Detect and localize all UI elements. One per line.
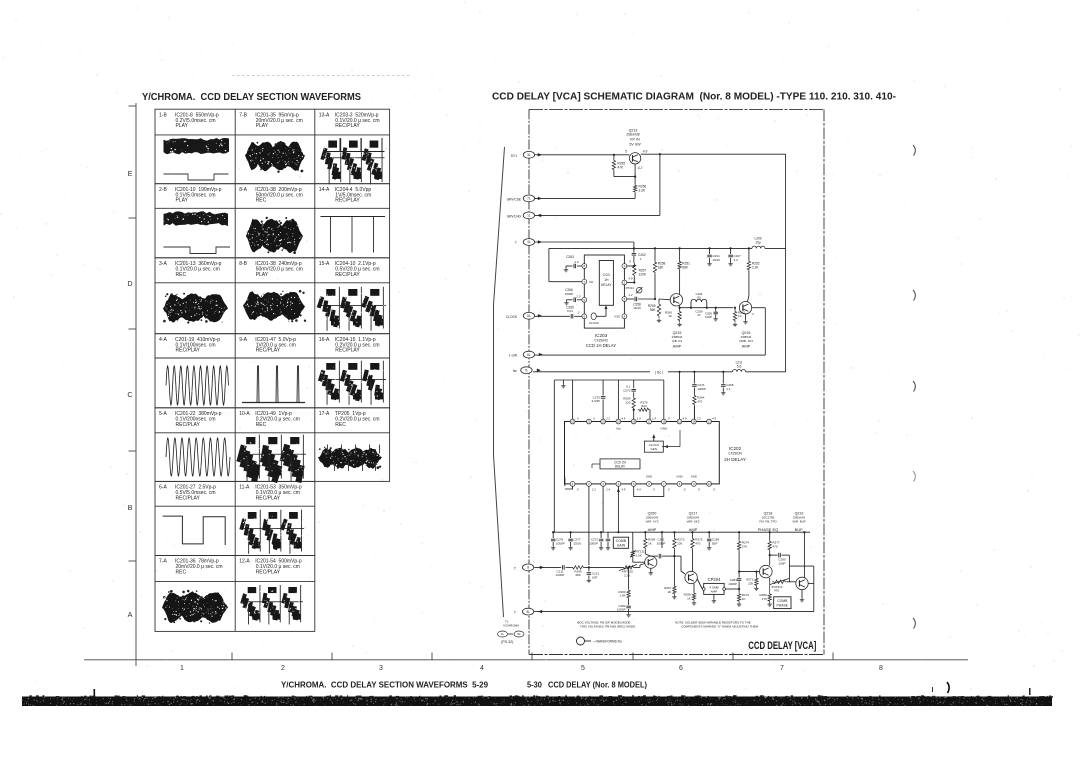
wire pin5 pin7 link bbox=[634, 486, 664, 496]
svg-text:COMB: COMB bbox=[777, 599, 788, 603]
svg-text:1K: 1K bbox=[687, 596, 691, 600]
svg-text:470: 470 bbox=[762, 597, 767, 601]
wire Q217 base bbox=[674, 555, 681, 557]
ground R260 bbox=[679, 323, 681, 325]
svg-text:1000P: 1000P bbox=[565, 292, 574, 296]
wire CP204 out bbox=[726, 588, 741, 590]
svg-text:DELAY: DELAY bbox=[615, 464, 626, 468]
svg-text:C270: C270 bbox=[623, 388, 631, 392]
svg-text:1-B: 1-B bbox=[159, 112, 167, 118]
capacitor C274 bbox=[692, 372, 706, 394]
wire 1GW bbox=[535, 354, 765, 356]
svg-text:33/16: 33/16 bbox=[573, 541, 581, 545]
svg-text:RT214: RT214 bbox=[626, 286, 635, 290]
svg-text:COMPONENTS MARKED ″X″ WHEN ADJ: COMPONENTS MARKED ″X″ WHEN ADJUSTING THE… bbox=[681, 625, 759, 629]
capacitor C272 bbox=[589, 532, 603, 546]
inductor L211 bbox=[733, 361, 746, 372]
wire pin4 down bbox=[617, 486, 620, 532]
resistor R256 bbox=[633, 184, 646, 193]
IC202 pin 17 bbox=[647, 419, 652, 424]
svg-text:3-A: 3-A bbox=[159, 261, 167, 267]
capacitor C273 bbox=[606, 532, 611, 546]
svg-text:2SB1438: 2SB1438 bbox=[626, 133, 639, 137]
svg-text:2.1: 2.1 bbox=[591, 488, 596, 492]
wire Q218 base bbox=[739, 571, 759, 573]
svg-text:CCD 1H DELAY: CCD 1H DELAY bbox=[586, 343, 616, 348]
resistor R271 bbox=[746, 571, 758, 587]
ground C256 bbox=[715, 317, 717, 319]
svg-text:PLAY: PLAY bbox=[176, 198, 189, 204]
svg-text:PHASE: PHASE bbox=[777, 604, 789, 608]
svg-text:GAIN: GAIN bbox=[617, 543, 626, 547]
svg-text:1.2: 1.2 bbox=[628, 293, 633, 297]
svg-text:120K: 120K bbox=[639, 273, 647, 277]
transistor Q213 bbox=[625, 129, 647, 171]
svg-text:GEN: GEN bbox=[651, 447, 658, 451]
svg-text:20: 20 bbox=[601, 420, 605, 424]
svg-text:5V SW: 5V SW bbox=[629, 143, 641, 147]
ground R280 bbox=[769, 602, 771, 604]
svg-text:C: C bbox=[127, 390, 132, 399]
wire drop pin19 bbox=[617, 380, 619, 419]
ground R262 bbox=[734, 323, 736, 325]
svg-text:GRV/CSE: GRV/CSE bbox=[507, 197, 521, 201]
svg-text:2H DELAY: 2H DELAY bbox=[724, 457, 746, 462]
svg-text:47: 47 bbox=[697, 313, 701, 317]
svg-text:1.1: 1.1 bbox=[726, 387, 731, 391]
svg-text:4.9: 4.9 bbox=[628, 277, 633, 281]
svg-text:TWO VOLTAGES: PB AND (REC) MOD: TWO VOLTAGES: PB AND (REC) MODE bbox=[580, 625, 635, 629]
svg-text:2: 2 bbox=[751, 312, 754, 316]
svg-text:REC/PLAY: REC/PLAY bbox=[335, 123, 360, 129]
wire Q219 collector bbox=[803, 532, 805, 578]
ground R272 bbox=[738, 602, 740, 604]
resistor R245 bbox=[571, 566, 622, 577]
svg-text:GND: GND bbox=[646, 475, 652, 479]
ground Q219 emitter bbox=[800, 590, 804, 602]
wire drop pin14 bbox=[693, 406, 695, 419]
resistor R263 bbox=[618, 567, 630, 599]
ground C272 bbox=[600, 546, 602, 548]
svg-text:1000P: 1000P bbox=[657, 541, 666, 545]
IC202 pin 14 bbox=[691, 419, 696, 424]
connector fsc bbox=[513, 367, 541, 374]
svg-text:3.3K: 3.3K bbox=[639, 189, 646, 193]
IC202 pin 4 bbox=[616, 482, 621, 487]
svg-text:RY IN: RY IN bbox=[630, 138, 640, 142]
resistor R251 bbox=[678, 248, 690, 294]
svg-text:CP204: CP204 bbox=[708, 577, 721, 582]
wire drop pin15 bbox=[679, 372, 681, 419]
ground R268 bbox=[693, 601, 695, 603]
svg-text:REC: REC bbox=[256, 198, 267, 204]
COMB GAIN box bbox=[613, 537, 628, 548]
svg-text:1L: 1L bbox=[501, 632, 505, 636]
transistor Q250 bbox=[645, 556, 657, 571]
capacitor C262 bbox=[632, 250, 646, 261]
capacitor C258 bbox=[627, 297, 655, 310]
transistor Q219 bbox=[796, 577, 808, 589]
wire Q213 base down bbox=[634, 164, 636, 184]
svg-text:Vcc: Vcc bbox=[616, 427, 622, 431]
inductor L203 bbox=[690, 292, 708, 317]
IC202 pin 7 bbox=[661, 482, 666, 487]
resistor R260 bbox=[665, 306, 681, 322]
resistor R280 bbox=[760, 582, 772, 603]
IC202 pin 10 bbox=[707, 482, 712, 487]
ground C277 bbox=[570, 546, 572, 548]
connector SY1 bbox=[511, 151, 542, 158]
wire right rail lower bbox=[785, 248, 787, 371]
label PS-32 block bbox=[498, 619, 525, 644]
resistor R252 bbox=[747, 248, 760, 302]
transistor Q217 label bbox=[687, 512, 700, 533]
connector T bbox=[515, 239, 542, 246]
trimmer RT211 bbox=[630, 532, 645, 562]
trimmer RT210 bbox=[619, 564, 645, 578]
svg-text:1.0K: 1.0K bbox=[619, 594, 625, 598]
svg-text:CCD: CCD bbox=[603, 273, 611, 277]
svg-text:E: E bbox=[128, 169, 133, 178]
ground C264 bbox=[709, 262, 711, 264]
svg-text:VAR. 6K3: VAR. 6K3 bbox=[687, 520, 700, 524]
capacitor C261 bbox=[651, 532, 675, 558]
resistor R266 bbox=[644, 532, 656, 556]
svg-text:8: 8 bbox=[527, 566, 529, 570]
resistor R264 bbox=[693, 394, 705, 419]
IC202 pin 15 bbox=[677, 419, 682, 424]
svg-text:4.2: 4.2 bbox=[638, 166, 643, 170]
svg-text:8-A: 8-A bbox=[239, 187, 247, 193]
trimmer RT214 bbox=[626, 286, 643, 297]
svg-text:REC/PLAY: REC/PLAY bbox=[256, 570, 281, 576]
svg-text:470: 470 bbox=[695, 541, 700, 545]
ground C268 bbox=[722, 391, 724, 393]
IC202 pin 16 bbox=[661, 419, 666, 424]
wire GRV/LNG to collector node bbox=[535, 154, 660, 215]
svg-text:7L: 7L bbox=[527, 197, 531, 201]
wire pin2 down bbox=[588, 486, 590, 565]
svg-text:18K: 18K bbox=[658, 266, 665, 270]
ground R267 bbox=[673, 595, 675, 597]
svg-text:12-A: 12-A bbox=[239, 559, 250, 565]
svg-text:T: T bbox=[515, 241, 517, 245]
svg-text:3.3/35: 3.3/35 bbox=[591, 399, 600, 403]
svg-text:PLAY: PLAY bbox=[256, 123, 269, 129]
transistor Q217 bbox=[681, 556, 697, 584]
IC202 pin 20 bbox=[601, 419, 606, 424]
ground C267 bbox=[730, 262, 732, 264]
capacitor C265 bbox=[535, 306, 582, 319]
connector T output bbox=[514, 608, 542, 615]
svg-text:REC: REC bbox=[176, 272, 187, 278]
svg-text:T: T bbox=[514, 611, 516, 615]
svg-text:10: 10 bbox=[707, 482, 711, 486]
wire comb rail bbox=[552, 531, 810, 533]
capacitor C263 bbox=[566, 255, 582, 268]
svg-text:2-B: 2-B bbox=[159, 187, 167, 193]
resistor R262 bbox=[733, 307, 745, 322]
svg-text:8: 8 bbox=[879, 665, 883, 672]
svg-text:A/B. K3: A/B. K3 bbox=[672, 339, 683, 343]
capacitor C282 bbox=[617, 599, 631, 613]
svg-text:4.9: 4.9 bbox=[712, 417, 716, 421]
IC203 pin 2 bbox=[622, 280, 627, 285]
svg-text:11-A: 11-A bbox=[239, 485, 250, 491]
svg-text:AMP: AMP bbox=[673, 344, 682, 349]
svg-text:1000P: 1000P bbox=[617, 608, 626, 612]
svg-text:GRV/LNG: GRV/LNG bbox=[507, 214, 522, 218]
svg-text:DELAY: DELAY bbox=[601, 283, 612, 287]
svg-text:6L: 6L bbox=[527, 353, 531, 357]
svg-text:0.1: 0.1 bbox=[626, 385, 631, 389]
trimmer RT213 bbox=[770, 578, 796, 593]
svg-text:22: 22 bbox=[571, 420, 575, 424]
svg-text:—WAVEFORMS No: —WAVEFORMS No bbox=[593, 640, 622, 644]
ground C266 bbox=[566, 301, 568, 303]
transistor Q216 bbox=[739, 302, 754, 349]
svg-text:60: 60 bbox=[697, 296, 701, 300]
capacitor C276 bbox=[551, 532, 565, 546]
note dc voltage bbox=[577, 621, 635, 629]
svg-text:2: 2 bbox=[577, 311, 580, 315]
CP204 filter bbox=[702, 577, 725, 599]
IC203 pin 3 bbox=[622, 297, 627, 302]
resistor R259 bbox=[648, 299, 661, 318]
capacitor C281 bbox=[728, 572, 741, 589]
IC203 pin 7 bbox=[582, 279, 593, 284]
svg-text:AMP: AMP bbox=[689, 527, 698, 532]
ground C213 bbox=[588, 579, 590, 581]
svg-text:1L: 1L bbox=[527, 214, 531, 218]
capacitor C270 bbox=[623, 380, 636, 392]
IC202 pin 3 bbox=[601, 482, 606, 487]
svg-text:4: 4 bbox=[480, 665, 484, 672]
svg-text:REC/PLAY: REC/PLAY bbox=[256, 348, 281, 354]
svg-text:100P: 100P bbox=[778, 561, 785, 565]
svg-text:4-A: 4-A bbox=[159, 337, 167, 343]
svg-text:22K: 22K bbox=[748, 581, 753, 585]
IC202 pin 19 bbox=[616, 419, 621, 424]
svg-text:5.6: 5.6 bbox=[737, 364, 742, 368]
ground Q216 emitter bbox=[743, 314, 747, 324]
svg-text:1000P: 1000P bbox=[589, 541, 598, 545]
svg-text:B: B bbox=[128, 503, 133, 512]
svg-text:4.9: 4.9 bbox=[621, 417, 625, 421]
IC203 pin 1 bbox=[622, 264, 627, 269]
IC203 outline bbox=[584, 255, 624, 348]
svg-text:1: 1 bbox=[180, 665, 184, 672]
IC202 pin 22 bbox=[570, 419, 575, 424]
wire SY1 to Q213 bbox=[535, 154, 630, 156]
wire vertical right rail bbox=[785, 154, 787, 248]
wire pin3 to Q215 base bbox=[659, 298, 670, 301]
IC202 outline bbox=[565, 422, 746, 484]
svg-text:VSS: VSS bbox=[614, 315, 620, 319]
svg-text:9L: 9L bbox=[526, 610, 530, 614]
wire drop pin16 bbox=[663, 380, 665, 419]
svg-text:4.9: 4.9 bbox=[683, 417, 687, 421]
svg-text:2K: 2K bbox=[668, 590, 672, 594]
svg-text:1H: 1H bbox=[604, 278, 609, 282]
svg-text:22K: 22K bbox=[677, 541, 682, 545]
svg-text:4.9: 4.9 bbox=[643, 150, 648, 154]
resistor R277 bbox=[768, 532, 780, 565]
resistor R273 bbox=[673, 532, 685, 557]
svg-text:18: 18 bbox=[632, 420, 636, 424]
svg-text:100P: 100P bbox=[705, 315, 712, 319]
IC202 pin 2 bbox=[587, 482, 592, 487]
svg-text:1.5K: 1.5K bbox=[636, 553, 642, 557]
svg-text:8-B: 8-B bbox=[239, 261, 247, 267]
svg-text:IC203: IC203 bbox=[595, 333, 608, 338]
wire Q216 output bbox=[752, 308, 766, 355]
svg-text:V/CHROMA: V/CHROMA bbox=[503, 623, 519, 627]
IC202 pin 6 bbox=[647, 482, 652, 487]
svg-text:15-A: 15-A bbox=[319, 261, 330, 267]
legend waveform symbol bbox=[577, 637, 622, 645]
svg-text:7L: 7L bbox=[525, 368, 529, 372]
resistor R275 bbox=[691, 532, 703, 571]
svg-text:1000P: 1000P bbox=[697, 387, 706, 391]
svg-text:5: 5 bbox=[581, 665, 585, 672]
svg-text:9-A: 9-A bbox=[239, 337, 247, 343]
ground CP204 bbox=[713, 599, 715, 601]
svg-text:2.2: 2.2 bbox=[605, 417, 610, 421]
svg-text:13: 13 bbox=[707, 420, 711, 424]
svg-text:Y/CHROMA. CCD DELAY SECTION W: Y/CHROMA. CCD DELAY SECTION WAVEFORMS 5-… bbox=[281, 681, 488, 690]
capacitor C256 bbox=[705, 307, 718, 319]
svg-text:82P: 82P bbox=[712, 541, 717, 545]
svg-text:FM. FB. TFD: FM. FB. TFD bbox=[759, 520, 777, 524]
svg-text:680: 680 bbox=[682, 266, 688, 270]
IC203 pin 4 bbox=[614, 314, 627, 319]
resistor R274 bbox=[737, 532, 749, 573]
svg-text:1K: 1K bbox=[738, 314, 742, 318]
svg-text:SY1: SY1 bbox=[511, 154, 518, 158]
svg-text:470: 470 bbox=[774, 589, 779, 593]
svg-text:PHASE EQ: PHASE EQ bbox=[758, 527, 778, 532]
svg-text:470: 470 bbox=[773, 544, 778, 548]
svg-text:5-30 CCD DELAY (Nor. 8 MODEL: 5-30 CCD DELAY (Nor. 8 MODEL) bbox=[527, 681, 647, 690]
svg-text:COMB: COMB bbox=[616, 539, 627, 543]
IC202 internal CCD 2H DELAY box bbox=[592, 459, 640, 469]
ground C263 bbox=[565, 268, 567, 270]
ground R271 bbox=[755, 587, 757, 589]
capacitor C213 bbox=[587, 567, 600, 579]
svg-text:14: 14 bbox=[692, 420, 696, 424]
wire fsc bbox=[533, 370, 786, 374]
svg-text:1000P: 1000P bbox=[556, 541, 565, 545]
svg-text:Y/CHROMA. CCD DELAY SECTION W: Y/CHROMA. CCD DELAY SECTION WAVEFORMS bbox=[142, 92, 361, 103]
svg-text:1K: 1K bbox=[742, 597, 746, 601]
ground C283 bbox=[708, 546, 710, 548]
svg-text:(PS-32): (PS-32) bbox=[501, 640, 513, 644]
svg-text:1.9: 1.9 bbox=[652, 417, 656, 421]
transistor Q219 label bbox=[792, 512, 806, 533]
IC202 pin 13 bbox=[707, 419, 712, 424]
svg-text:10P: 10P bbox=[592, 575, 597, 579]
wire drop pin22 bbox=[572, 380, 574, 419]
wire pin2 bbox=[627, 277, 636, 284]
svg-text:A: A bbox=[128, 610, 133, 619]
note soldering bbox=[675, 621, 759, 629]
COMB PHASE box bbox=[774, 597, 791, 609]
wire pin7 loop bbox=[549, 248, 582, 281]
svg-text:VAR. 6Y3: VAR. 6Y3 bbox=[646, 520, 659, 524]
svg-text:0.01: 0.01 bbox=[567, 309, 573, 313]
transistor Q215 bbox=[670, 294, 682, 349]
svg-text:15μ: 15μ bbox=[755, 241, 761, 245]
resistor R257 bbox=[633, 259, 647, 283]
capacitor C280 bbox=[770, 553, 790, 582]
svg-text:1 GW: 1 GW bbox=[509, 354, 517, 358]
svg-text:1000P: 1000P bbox=[728, 582, 737, 586]
ground Q250 emitter bbox=[650, 571, 652, 573]
svg-text:16: 16 bbox=[662, 420, 666, 424]
ground C282 bbox=[628, 613, 630, 615]
capacitor C268 bbox=[721, 372, 734, 391]
IC202 pin 21 bbox=[587, 419, 592, 424]
svg-text:2.4: 2.4 bbox=[605, 488, 610, 492]
wire Q213 collector row bbox=[641, 153, 786, 155]
ground R259 bbox=[658, 319, 660, 321]
svg-text:120: 120 bbox=[625, 400, 630, 404]
IC202 pin 8 bbox=[677, 482, 682, 487]
svg-text:680: 680 bbox=[575, 573, 580, 577]
svg-text:PLAY: PLAY bbox=[256, 272, 269, 278]
resistor R258 bbox=[653, 248, 665, 300]
ground section bbox=[561, 380, 565, 388]
svg-text:2: 2 bbox=[281, 665, 285, 672]
svg-text:4L: 4L bbox=[527, 240, 531, 244]
svg-text:CX23043: CX23043 bbox=[594, 339, 608, 343]
IC202 pin 18 bbox=[631, 419, 636, 424]
svg-text:C263: C263 bbox=[566, 255, 574, 259]
svg-text:VH: VH bbox=[589, 280, 593, 284]
transistor Q250 label bbox=[646, 512, 659, 533]
IC203 pin 5 bbox=[582, 297, 587, 302]
svg-text:21: 21 bbox=[587, 420, 591, 424]
svg-text:4.9: 4.9 bbox=[621, 488, 625, 492]
svg-text:3: 3 bbox=[379, 665, 383, 672]
IC202 pin 9 bbox=[691, 482, 696, 487]
node CLOCK internal bbox=[589, 305, 608, 325]
svg-text:1K: 1K bbox=[648, 541, 652, 545]
svg-text:CX23034: CX23034 bbox=[728, 452, 742, 456]
svg-text:REC: REC bbox=[176, 570, 187, 576]
IC203 pin 8 bbox=[582, 264, 587, 269]
svg-text:CCD DELAY [VCA] SCHEMATIC DIAG: CCD DELAY [VCA] SCHEMATIC DIAGRAM (Nor. … bbox=[492, 92, 896, 103]
svg-text:6-A: 6-A bbox=[159, 485, 167, 491]
inductor L209 bbox=[752, 237, 765, 249]
wire pin1 loop bbox=[565, 478, 573, 489]
svg-text:GND: GND bbox=[660, 427, 668, 431]
svg-text:T: T bbox=[514, 566, 516, 570]
resistor R272 bbox=[737, 589, 749, 602]
svg-text:REC/PLAY: REC/PLAY bbox=[176, 422, 201, 428]
wire section loop top bbox=[554, 380, 664, 532]
svg-text:REC/PLAY: REC/PLAY bbox=[176, 348, 201, 354]
svg-text:CLOCK: CLOCK bbox=[506, 315, 518, 319]
svg-text:CCD DELAY [VCA]: CCD DELAY [VCA] bbox=[748, 640, 816, 652]
ground C273 bbox=[607, 546, 609, 548]
svg-text:10-A: 10-A bbox=[239, 411, 250, 417]
IC202 internal CLOCK GEN box bbox=[644, 430, 680, 452]
svg-text:REC/PLAY: REC/PLAY bbox=[256, 495, 281, 501]
svg-text:4.9: 4.9 bbox=[637, 488, 641, 492]
ground C276 bbox=[552, 546, 554, 548]
